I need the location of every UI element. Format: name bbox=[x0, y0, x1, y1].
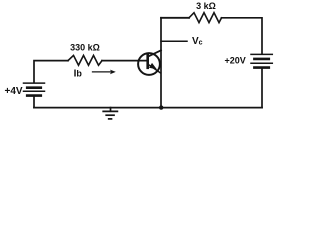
svg-text:3 kΩ: 3 kΩ bbox=[196, 1, 216, 11]
wire: top rail left segment bbox=[161, 17, 189, 19]
svg-text:+20V: +20V bbox=[225, 55, 246, 65]
wire: V1 negative terminal down to bottom rail bbox=[33, 97, 35, 108]
node: Vc tap wire bbox=[161, 40, 187, 42]
ground bbox=[103, 108, 117, 119]
wire: top rail right segment and drop to V2 bbox=[222, 18, 263, 54]
transistor Q1 bbox=[138, 50, 161, 75]
resistor R2 3 kOhm bbox=[189, 13, 222, 23]
svg-text:+4V: +4V bbox=[5, 86, 23, 97]
svg-text:330 kΩ: 330 kΩ bbox=[70, 43, 100, 53]
wire: V2 negative down to bottom rail bbox=[261, 68, 263, 107]
resistor R1 330 kOhm bbox=[68, 55, 102, 65]
wire: R1 to Q1 base bbox=[102, 60, 147, 62]
current arrow Ib bbox=[93, 70, 116, 75]
svg-text:Ib: Ib bbox=[74, 68, 83, 79]
wire: +4V battery positive terminal up and right to R1 bbox=[34, 61, 68, 83]
wire: vertical collector/emitter line Q1 bbox=[160, 18, 162, 108]
svg-text:Vc: Vc bbox=[192, 36, 203, 47]
junction: emitter to bottom rail bbox=[159, 105, 163, 109]
battery V2 +20V bbox=[251, 54, 272, 67]
wire: bottom rail bbox=[34, 107, 262, 109]
battery V1 +4V bbox=[24, 83, 45, 96]
